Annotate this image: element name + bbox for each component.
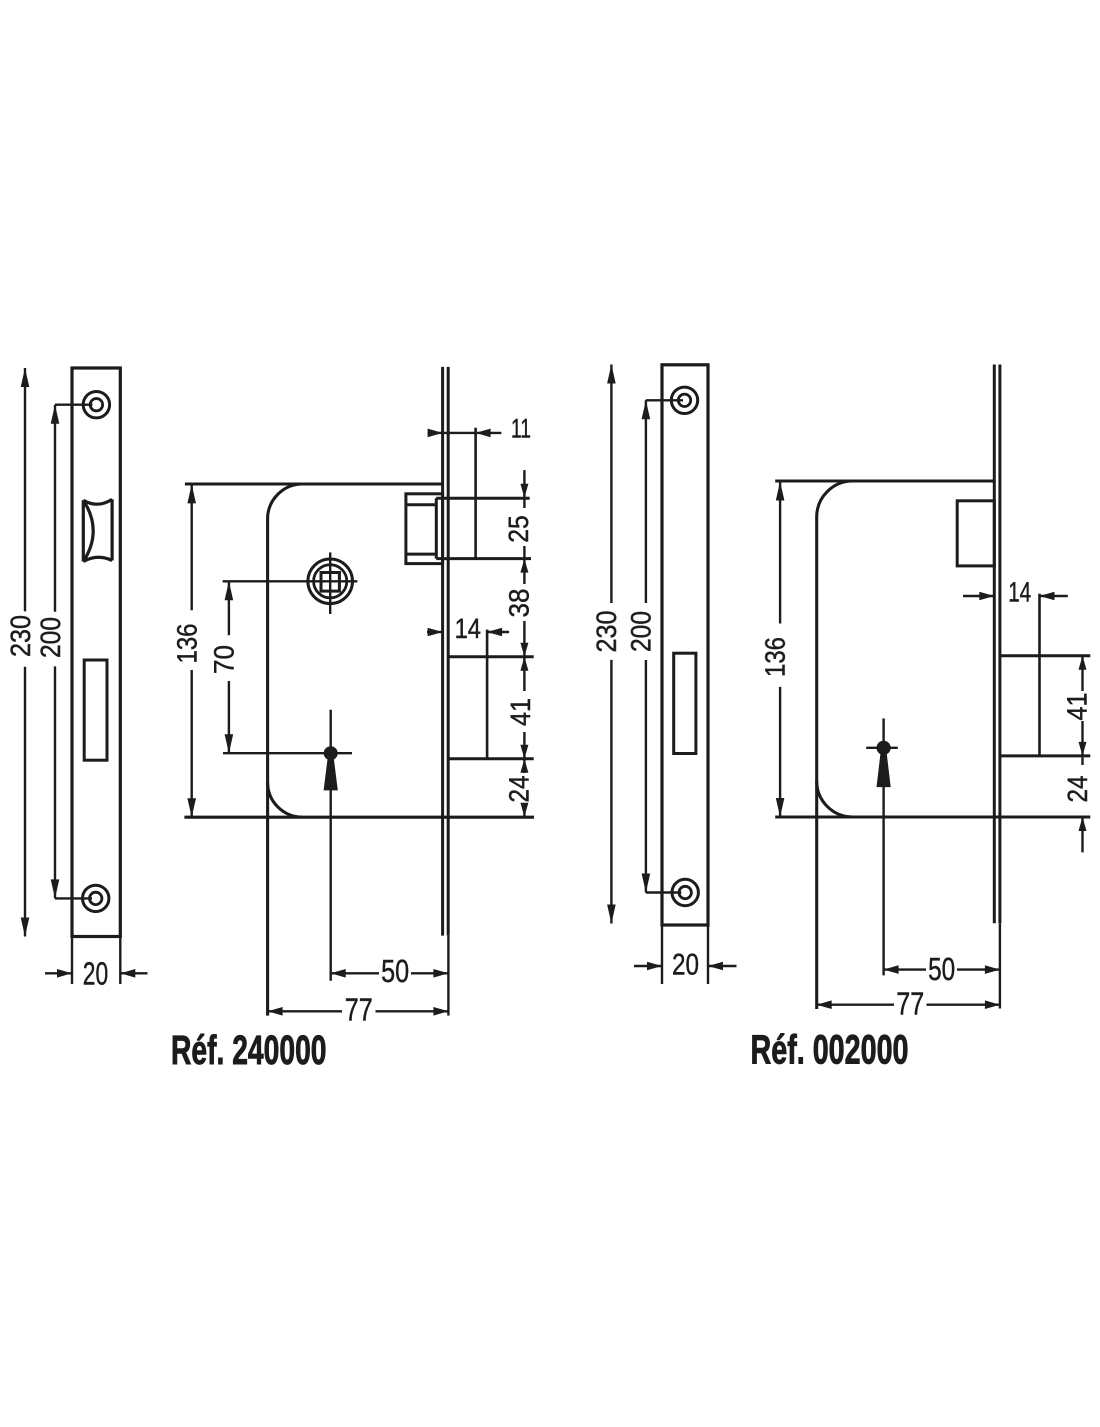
right deadbolt pocket side view [1000,654,1090,657]
svg-text:230: 230 [5,615,36,657]
left dim 50 [331,972,379,974]
svg-text:11: 11 [511,413,531,443]
left faceplate bottom screw hole [83,885,109,911]
left dim 70 [228,581,230,635]
right chain arrowheads [1079,656,1087,670]
left faceplate deadbolt cutout [84,660,107,760]
right faceplate top screw hole [671,387,697,413]
svg-text:230: 230 [591,611,622,653]
left dim 200 line [54,405,56,612]
svg-text:20: 20 [83,955,108,991]
right chain dim line [1081,656,1083,691]
left dim 136 [190,484,192,610]
svg-text:41: 41 [505,698,536,726]
right lock body outline [775,479,994,482]
right faceplate deadbolt cutout [674,653,696,753]
right dim 136 [779,482,781,624]
right dim 50 [884,968,926,970]
right faceplate side view [993,365,996,924]
left deadbolt pocket side view [448,655,534,658]
svg-text:14: 14 [455,613,481,644]
svg-text:38: 38 [504,589,535,618]
right deadbolt box [957,501,994,566]
left spindle follower [308,559,353,604]
right dim 14 [963,595,994,597]
svg-text:41: 41 [1062,693,1093,721]
svg-text:50: 50 [928,951,955,987]
left faceplate top screw hole [83,392,109,418]
right dim 200 line [645,400,647,603]
svg-text:200: 200 [35,617,66,658]
svg-text:77: 77 [345,992,373,1028]
left dim 14 [427,631,443,633]
right dim 20 [661,925,663,984]
svg-text:24: 24 [504,776,535,803]
svg-text:24: 24 [1062,776,1093,803]
svg-text:14: 14 [1008,577,1031,608]
right dim 77 [817,1004,894,1006]
right faceplate front view outline [662,365,708,925]
svg-text:136: 136 [172,624,203,664]
left lock body outline [185,482,443,485]
left faceplate side view [441,367,444,936]
left latch bolt side view [406,494,443,564]
right faceplate bottom screw hole [672,879,698,905]
left dim 77 [268,1010,342,1012]
svg-text:70: 70 [209,645,240,674]
right dim 230 line [610,365,612,604]
svg-text:Réf. 240000: Réf. 240000 [171,1027,327,1073]
left chain arrowheads [520,484,528,498]
right keyhole [877,741,891,755]
left dim 11 [428,432,502,434]
left keyhole [324,746,338,760]
svg-text:136: 136 [760,637,791,677]
svg-text:77: 77 [896,986,924,1022]
svg-text:Réf. 002000: Réf. 002000 [751,1027,909,1073]
left faceplate front view outline [72,368,120,937]
left faceplate latch cutout [83,499,112,561]
svg-text:50: 50 [381,953,409,989]
left chain dim line [523,470,525,508]
svg-text:20: 20 [672,949,699,982]
svg-text:25: 25 [503,515,534,543]
svg-text:200: 200 [625,611,656,652]
left dim 20 [71,937,73,985]
left dim 230 line [24,368,26,611]
